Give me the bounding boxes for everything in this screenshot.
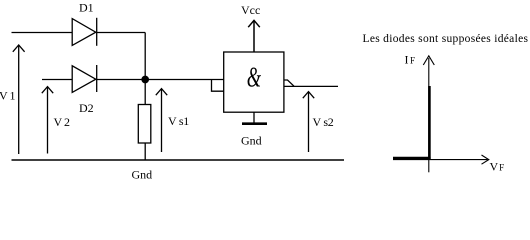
diode characteristic vertical thick segment (428, 86, 431, 160)
AND gate output pin (284, 80, 294, 86)
svg-text:Gnd: Gnd (132, 168, 153, 182)
svg-text:D2: D2 (79, 101, 94, 115)
graph VF axis (horizontal) (393, 155, 489, 164)
svg-text:Gnd: Gnd (241, 134, 262, 148)
wire node down to resistor (144, 80, 146, 105)
AND gate U1 box (224, 52, 284, 112)
svg-text:V s1: V s1 (168, 114, 189, 128)
svg-text:V s2: V s2 (313, 115, 334, 129)
svg-text:Vcc: Vcc (241, 3, 260, 17)
voltage arrow V1 (13, 45, 25, 154)
diode characteristic horizontal thick segment (393, 157, 431, 160)
Vcc pin arrow (248, 20, 260, 52)
svg-text:VF: VF (490, 160, 505, 174)
svg-text:&: & (247, 63, 262, 94)
voltage arrow Vs1 (156, 89, 167, 152)
diode D1 (72, 18, 97, 46)
AND gate ground bar (242, 122, 267, 125)
wire AND output (284, 85, 338, 87)
diode D2 (72, 65, 97, 92)
voltage arrow V2 (42, 87, 53, 154)
AND gate ground pin (253, 112, 255, 124)
wire D1 cathode to corner (97, 32, 146, 34)
wire top-left to D1 anode (12, 32, 73, 34)
resistor R1 (138, 105, 151, 144)
wire resistor to ground rail (144, 143, 146, 160)
wire D2 cathode to AND gate input (97, 79, 224, 81)
svg-text:V 2: V 2 (54, 115, 70, 129)
AND gate input stub box (212, 80, 224, 92)
svg-text:D1: D1 (79, 0, 94, 14)
junction node dot (142, 76, 148, 82)
wire V2 input to D2 anode (42, 79, 72, 81)
ground rail (12, 159, 345, 161)
voltage arrow Vs2 (303, 92, 314, 152)
svg-text:Les diodes sont supposées idéa: Les diodes sont supposées idéales (363, 33, 529, 45)
wire corner down to node (144, 33, 146, 80)
graph IF axis (vertical) (423, 56, 434, 173)
svg-text:IF: IF (405, 53, 416, 67)
svg-text:V 1: V 1 (0, 89, 15, 103)
